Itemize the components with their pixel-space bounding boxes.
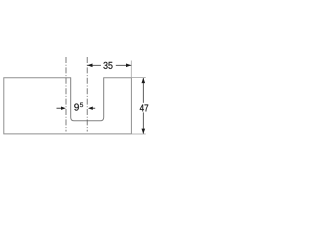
- dim 9.5 label: [74, 104, 79, 111]
- dim 47 label: [140, 105, 148, 112]
- dim 35 left arrowhead: [87, 64, 92, 68]
- dimension 35 line: [87, 64, 101, 66]
- centerline CL2: [86, 57, 88, 132]
- dim 47 bottom arrowhead: [142, 129, 146, 134]
- dim 35 label: [103, 62, 112, 69]
- cutout: [71, 77, 104, 120]
- extension line top of dim 47: [132, 77, 146, 79]
- dim 9.5 right arrow: [88, 107, 93, 110]
- dimension 47 line: [142, 78, 144, 103]
- extension line right of dim 35: [130, 61, 132, 78]
- centerline CL1: [65, 57, 67, 132]
- extension line bottom of dim 47: [132, 133, 146, 135]
- dim 35 right arrowhead: [126, 64, 131, 68]
- dim 9.5 left arrow: [57, 107, 62, 109]
- panel outline: [4, 78, 132, 134]
- dim 47 top arrowhead: [142, 78, 146, 83]
